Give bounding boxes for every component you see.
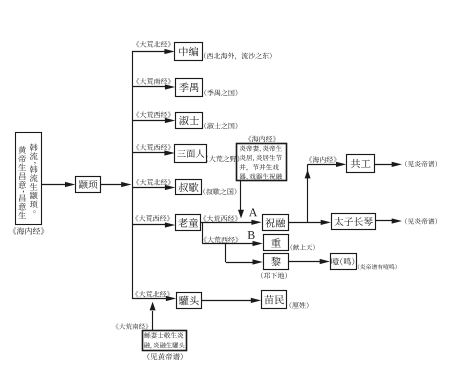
wire trunk to Huantou with arrow xyxy=(132,296,176,301)
wire source-box to Zhuanxu with arrow xyxy=(42,182,76,187)
label Dahuang-nan-jing bottom xyxy=(116,323,149,329)
wire Laotong branch down (B corner) xyxy=(202,222,204,243)
label Jiyu classic source xyxy=(136,78,171,85)
note Li (qiong xia di) xyxy=(261,272,287,279)
note for Zhongbian xyxy=(204,52,271,59)
label Hainei-jing under source box xyxy=(13,227,45,234)
node Taizi-Changqin box xyxy=(332,214,376,230)
wire bottom quote box up to Huantou wire with arrow xyxy=(150,302,156,330)
wire junction up toward Gonggong xyxy=(305,164,311,222)
label Zhongbian classic source xyxy=(136,41,171,48)
node Jiyu box xyxy=(176,79,203,97)
wire Huantou to Miaomin with arrow xyxy=(202,298,262,303)
node Ye box xyxy=(331,254,357,270)
wire B line to Zhong with arrow xyxy=(202,241,262,246)
wire Zhurong to Taizi-Changqin with arrow xyxy=(289,220,332,225)
label Huantou classic source xyxy=(135,291,170,298)
label Hainei-jing above quote box xyxy=(248,136,276,143)
label letter A xyxy=(249,208,257,216)
note for Three-faced xyxy=(206,155,239,162)
label A-line classic source xyxy=(203,215,238,222)
wire quote box down to A line with arrow xyxy=(238,181,244,218)
node Laotong box xyxy=(176,215,201,231)
node source-box (Huangdi lineage, vertical text) xyxy=(16,133,42,225)
note for Shushi xyxy=(204,123,237,130)
wire Taizi-Changqin to note with arrow xyxy=(376,218,403,223)
node Zhong box xyxy=(264,235,289,251)
label Three-faced classic source xyxy=(136,144,171,151)
note Miaomin (Li surname) xyxy=(290,302,309,309)
node Shushi box xyxy=(176,113,203,129)
wire trunk vertical xyxy=(132,51,134,299)
wire Gonggong to note with arrow xyxy=(375,162,403,167)
node Gonggong box xyxy=(347,155,375,173)
node Zhongbian box xyxy=(175,43,203,61)
label B-line classic source xyxy=(204,236,239,243)
note Zhong (xian shang tian) xyxy=(291,244,315,250)
node Huantou box xyxy=(177,293,202,309)
wire trunk to Shushi with arrow xyxy=(132,118,175,123)
label Hainei-jing on Gonggong wire xyxy=(309,156,337,163)
node Yan-Emperor quote box (Hainei jing) xyxy=(237,144,287,181)
wire Laotong to Zhurong (A line) with arrow xyxy=(201,220,262,225)
node Three-faced box xyxy=(175,145,207,163)
label Laotong classic source xyxy=(135,215,170,222)
wire trunk to Three-faced with arrow xyxy=(132,150,175,155)
wire to Gonggong with arrow xyxy=(308,162,347,167)
note see Yandi genealogy (top) xyxy=(405,161,437,167)
wire B branch down to Li xyxy=(225,244,227,263)
node Gun-wife quote box (Dahuang nan jing) xyxy=(143,331,187,351)
wire Li to Ye with arrow xyxy=(289,259,331,264)
node Zhuanxu box xyxy=(76,177,101,193)
label Shuchu classic source xyxy=(136,179,171,186)
node Miaomin box xyxy=(262,291,287,309)
note for Shuchu xyxy=(203,188,236,195)
wire trunk to Zhongbian with arrow xyxy=(132,49,175,54)
label Shushi classic source xyxy=(136,111,171,118)
note see Yandi genealogy (bottom) xyxy=(405,218,437,224)
note see Huangdi genealogy xyxy=(147,353,182,360)
note Ye (Yandi genealogy has Yeming) xyxy=(358,264,397,269)
wire Zhuanxu to trunk with arrow xyxy=(101,182,132,187)
note for Jiyu xyxy=(204,89,237,96)
wire trunk to Laotong with arrow xyxy=(132,222,175,227)
node Zhurong box xyxy=(263,215,289,231)
wire trunk to Shuchu with arrow xyxy=(132,185,175,190)
node Shuchu box xyxy=(176,180,202,195)
node Li box xyxy=(264,254,289,270)
label letter B xyxy=(248,231,255,239)
wire trunk to Jiyu with arrow xyxy=(132,84,175,89)
wire to Li with arrow xyxy=(226,259,263,264)
